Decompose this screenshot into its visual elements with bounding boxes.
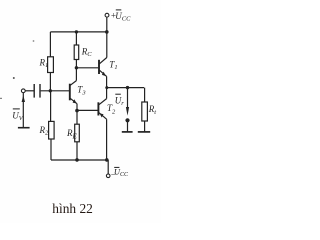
svg-text:hình 22: hình 22: [52, 201, 93, 216]
node junction top rail / +Ucc: [105, 30, 109, 34]
svg-text:R2: R2: [39, 125, 50, 137]
svg-text:UCC: UCC: [115, 11, 131, 23]
node T3 emitter / T2 base junction: [75, 109, 79, 113]
ground Rt: [138, 131, 150, 133]
wire T3 collector to T1 base: [76, 67, 98, 69]
svg-text:UV: UV: [12, 111, 23, 123]
node junction top rail / Rc: [75, 30, 78, 33]
node T3 collector / T1 base junction: [75, 66, 78, 69]
resistor Rc: [75, 32, 77, 45]
resistor R2: [50, 91, 52, 122]
svg-text:Ur: Ur: [115, 96, 125, 108]
terminal +Ucc: [105, 13, 109, 17]
arrow Ur output voltage: [127, 88, 129, 108]
transistor T2: [97, 102, 99, 115]
resistor Rt: [144, 88, 146, 102]
transistor T1: [99, 58, 106, 64]
svg-text:T3: T3: [77, 85, 86, 97]
wire T3 emitter down: [76, 104, 78, 125]
svg-text:RC: RC: [81, 47, 93, 59]
capacitor plates: [33, 84, 35, 98]
node output / Ur junction: [126, 86, 129, 89]
wire +Ucc drop to T1 collector: [106, 17, 108, 57]
svg-text:UCC: UCC: [114, 167, 129, 178]
wire output node: [107, 87, 144, 89]
wire input to capacitor: [25, 90, 33, 92]
node RE / bottom rail junction: [75, 158, 79, 162]
wire -Ucc drop: [107, 160, 109, 174]
svg-text:RE: RE: [66, 128, 78, 141]
transistor T3: [70, 81, 76, 86]
terminal input: [21, 89, 25, 93]
speck edge: [0, 98, 2, 99]
resistor RE: [75, 124, 80, 142]
wire bottom rail: [51, 159, 108, 161]
terminal -Ucc: [106, 174, 110, 178]
ground Ur: [122, 131, 133, 133]
svg-text:R1: R1: [39, 58, 49, 70]
node input / R1 / R2 junction: [49, 89, 52, 92]
arrow Uv input voltage: [22, 93, 24, 127]
svg-text:Rt: Rt: [148, 104, 157, 116]
wire capacitor to T3 base: [41, 90, 70, 92]
resistor R1: [49, 32, 51, 57]
wire T3 emitter to T2 base: [77, 109, 98, 111]
speck top left: [33, 40, 35, 42]
svg-text:T1: T1: [109, 60, 117, 72]
node T2 emitter / bottom rail junction: [105, 158, 109, 162]
speck left: [13, 77, 15, 79]
wire top supply rail: [50, 31, 106, 33]
